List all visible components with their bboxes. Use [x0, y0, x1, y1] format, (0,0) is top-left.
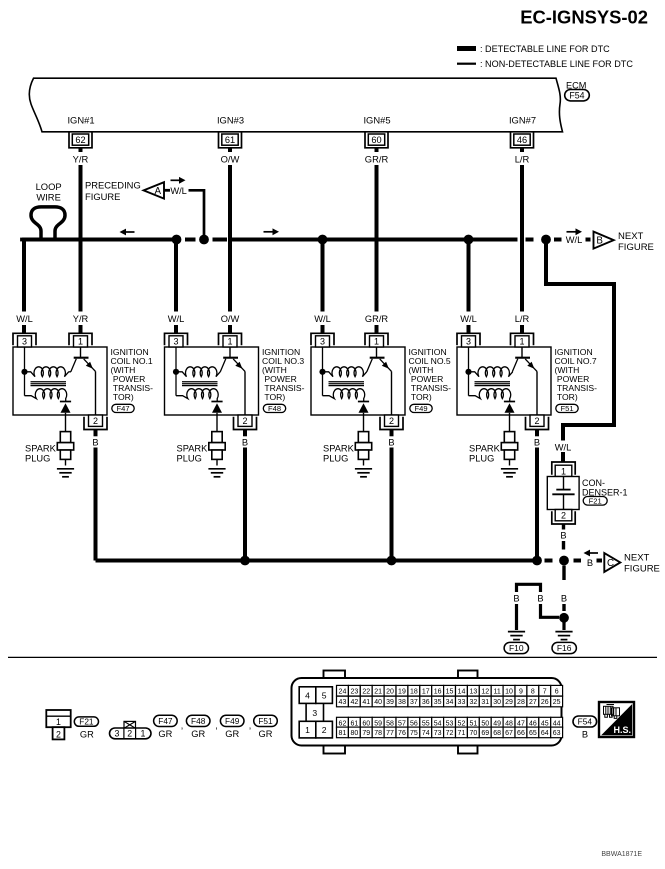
- svg-text:75: 75: [410, 730, 418, 737]
- svg-text:W/L: W/L: [170, 186, 187, 196]
- svg-text:F54: F54: [578, 716, 593, 726]
- svg-text:2: 2: [561, 510, 566, 520]
- svg-text:IGN#3: IGN#3: [217, 115, 244, 126]
- svg-text:1: 1: [227, 337, 232, 347]
- svg-text:F21: F21: [79, 717, 94, 727]
- coil NO.1 box: [13, 347, 107, 415]
- svg-text:FIGURE: FIGURE: [85, 191, 120, 202]
- wire: dash after junction: [574, 559, 582, 563]
- svg-text:F47: F47: [116, 404, 129, 413]
- connector F47: [112, 404, 134, 413]
- svg-text:13: 13: [469, 688, 477, 695]
- svg-text:4: 4: [305, 691, 310, 701]
- transformer T3 primary winding: [176, 367, 220, 377]
- svg-text:TOR): TOR): [111, 392, 134, 402]
- wire primary to transistor base (coil 1): [69, 371, 72, 373]
- diode D3: [211, 402, 222, 413]
- wire B from coil 3 terminal 2 to ground bus: [243, 430, 247, 437]
- wire diode to spark plug (coil 1): [65, 413, 67, 432]
- node junction ground bus (coil 5 B): [387, 556, 397, 566]
- connector F54 (ECM): [565, 90, 590, 101]
- svg-text:72: 72: [446, 730, 454, 737]
- svg-text:B: B: [582, 729, 588, 739]
- svg-text:H.S.: H.S.: [613, 725, 631, 735]
- svg-text:58: 58: [386, 720, 394, 727]
- svg-text:SPARK: SPARK: [177, 444, 209, 454]
- svg-text:10: 10: [505, 688, 513, 695]
- svg-text:F51: F51: [560, 404, 573, 413]
- svg-text:1: 1: [78, 337, 83, 347]
- condenser C1 box: [547, 477, 579, 510]
- svg-text:TOR): TOR): [262, 392, 285, 402]
- arrow left (from next figure): [584, 550, 599, 557]
- wire W/L into condenser: [561, 452, 565, 462]
- svg-text:GR: GR: [259, 729, 273, 739]
- svg-text:42: 42: [350, 699, 358, 706]
- svg-text:F49: F49: [225, 716, 240, 726]
- svg-text:61: 61: [225, 135, 235, 145]
- svg-text:64: 64: [541, 730, 549, 737]
- node junction inside coil 5: [319, 369, 325, 375]
- connector F51 label: [254, 715, 278, 726]
- wire: coil no.3 W/L drop: [174, 240, 178, 312]
- ECM block (torn strip): [29, 78, 562, 132]
- svg-text:W/L: W/L: [555, 442, 572, 452]
- svg-text:60: 60: [371, 135, 381, 145]
- svg-text:1: 1: [305, 725, 310, 735]
- pin cell 4: [299, 687, 316, 704]
- svg-text:26: 26: [541, 699, 549, 706]
- svg-text:TOR): TOR): [555, 392, 578, 402]
- svg-text:F47: F47: [158, 716, 173, 726]
- pin cell 5: [316, 687, 333, 704]
- svg-text:Y/R: Y/R: [73, 314, 89, 324]
- spark plug ground (coil 7): [501, 469, 518, 477]
- svg-text:3: 3: [115, 729, 120, 739]
- svg-text:2: 2: [93, 416, 98, 426]
- svg-text:W/L: W/L: [460, 314, 477, 324]
- svg-text:C: C: [607, 558, 614, 569]
- svg-text:40: 40: [374, 699, 382, 706]
- transformer T5 primary winding: [323, 367, 367, 377]
- svg-text:O/W: O/W: [221, 154, 240, 165]
- wire primary to transistor base (coil 5): [366, 371, 369, 373]
- wire: dashed bus segment: [213, 238, 228, 242]
- ignition coil NO.5 (F49): [311, 314, 451, 561]
- connector F21 (condenser): [583, 497, 607, 506]
- svg-text:B: B: [92, 437, 98, 447]
- svg-text:66: 66: [517, 730, 525, 737]
- svg-text:PLUG: PLUG: [177, 454, 202, 464]
- connector tab bottom left: [324, 743, 346, 754]
- svg-text:IGN#7: IGN#7: [509, 115, 536, 126]
- svg-text:11: 11: [494, 688, 501, 695]
- svg-text:35: 35: [434, 699, 442, 706]
- svg-text:69: 69: [481, 730, 489, 737]
- svg-text:37: 37: [410, 699, 418, 706]
- wire: dash before arrow C: [597, 559, 603, 563]
- svg-text:51: 51: [469, 720, 477, 727]
- svg-text:22: 22: [362, 688, 370, 695]
- svg-text:32: 32: [469, 699, 477, 706]
- ignition coil NO.3 (F48): [165, 314, 305, 561]
- svg-text:41: 41: [362, 699, 370, 706]
- transistor Q5 (power transistor): [367, 347, 392, 372]
- wire emitter to terminal 2 (coil 3): [244, 371, 246, 415]
- coil NO.5 box: [311, 347, 405, 415]
- wire primary to transistor base (coil 3): [219, 371, 222, 373]
- svg-text:31: 31: [481, 699, 489, 706]
- wire Y/R from ECM pin 62 down to ignition coil: [79, 148, 83, 152]
- svg-text:67: 67: [505, 730, 513, 737]
- figure arrow C (next figure): [604, 553, 620, 572]
- svg-text:F21: F21: [589, 497, 602, 506]
- svg-text:SPARK: SPARK: [25, 444, 57, 454]
- wire emitter to terminal 2 (coil 5): [391, 371, 393, 415]
- svg-text:NEXT: NEXT: [618, 231, 644, 242]
- connector F49 label: [220, 715, 244, 726]
- svg-text:70: 70: [469, 730, 477, 737]
- wire primary to transistor base (coil 7): [512, 371, 514, 373]
- connector F10: [504, 642, 528, 653]
- svg-text:30: 30: [493, 699, 501, 706]
- svg-text:21: 21: [374, 688, 382, 695]
- svg-text:FIGURE: FIGURE: [624, 564, 660, 575]
- transistor Q1 (power transistor): [71, 347, 96, 372]
- wire: W/L bus corner down to coil no.1 terminal 3: [22, 240, 26, 312]
- wire L/R from ECM pin 46 down to ignition coil: [520, 148, 524, 152]
- terminal 1 of coil NO.7: [511, 333, 534, 347]
- svg-text:46: 46: [529, 720, 537, 727]
- svg-text:8: 8: [531, 688, 535, 695]
- svg-text:78: 78: [374, 730, 382, 737]
- connector F16: [552, 642, 576, 653]
- svg-text:52: 52: [458, 720, 466, 727]
- dashed wire segment above ground junction: [562, 604, 565, 611]
- terminal 2 of coil NO.5: [380, 415, 403, 430]
- arrow right on bus: [264, 228, 280, 235]
- terminal 1 of coil NO.1: [69, 333, 92, 347]
- svg-text:W/L: W/L: [16, 314, 33, 324]
- wire emitter to terminal 2 (coil 7): [536, 371, 538, 415]
- wire: coil no.5 W/L drop: [321, 240, 325, 312]
- svg-text:F54: F54: [569, 90, 584, 100]
- figure arrow B (next figure): [594, 232, 614, 249]
- svg-text:,: ,: [249, 721, 252, 731]
- ECM terminal 62: [69, 133, 92, 148]
- pin cell 2: [316, 721, 333, 738]
- ECM pin grid: [337, 685, 349, 696]
- connector F54 label (bottom): [573, 716, 597, 727]
- svg-text:43: 43: [339, 699, 347, 706]
- wire emitter to terminal 2 (coil 1): [95, 371, 97, 415]
- svg-text:IGN#5: IGN#5: [363, 115, 390, 126]
- svg-text:18: 18: [410, 688, 418, 695]
- wire: dash before W/L label: [554, 238, 562, 242]
- svg-text:B: B: [561, 594, 567, 604]
- wire W/L from arrow A: [164, 189, 170, 192]
- diode D5: [358, 402, 369, 413]
- transformer T7 core: [475, 382, 511, 386]
- transformer T7 secondary winding: [469, 389, 511, 402]
- svg-text:54: 54: [434, 720, 442, 727]
- terminal 3 of coil NO.1: [13, 333, 36, 347]
- terminal 1 of coil NO.5: [365, 333, 388, 347]
- svg-text:Y/R: Y/R: [73, 154, 89, 165]
- separator rule: [8, 656, 657, 658]
- svg-text:1: 1: [561, 466, 566, 476]
- connector F48: [263, 404, 285, 413]
- svg-text:56: 56: [410, 720, 418, 727]
- ignition coil NO.7 (F51): [457, 314, 597, 561]
- svg-text:80: 80: [350, 730, 358, 737]
- svg-text:6: 6: [555, 688, 559, 695]
- node junction ground bus (coil 7 B): [532, 556, 542, 566]
- transistor Q3 (power transistor): [220, 347, 245, 372]
- spark plug ground (coil 5): [355, 469, 372, 477]
- svg-text:23: 23: [350, 688, 358, 695]
- connector view F21 (2-pin): [46, 710, 70, 739]
- wire: ground bus B (horizontal): [96, 559, 538, 563]
- wire B from coil 1 terminal 2 to ground bus: [94, 430, 98, 437]
- figure arrow A (preceding figure): [144, 182, 164, 198]
- spark plug ground (coil 1): [57, 469, 74, 477]
- svg-text:WIRE: WIRE: [36, 192, 60, 203]
- svg-text:7: 7: [543, 688, 547, 695]
- svg-text:33: 33: [458, 699, 466, 706]
- svg-text:45: 45: [541, 720, 549, 727]
- svg-text:50: 50: [481, 720, 489, 727]
- pin cell 1: [299, 721, 316, 738]
- svg-text:B: B: [537, 594, 543, 604]
- svg-text:2: 2: [534, 416, 539, 426]
- wire: coil no.7 W/L drop: [467, 240, 471, 312]
- svg-text:59: 59: [374, 720, 382, 727]
- svg-text:29: 29: [505, 699, 513, 706]
- terminal 3 of coil NO.7: [457, 333, 480, 347]
- svg-text:GR/R: GR/R: [365, 154, 389, 165]
- arrow over W/L (from preceding figure): [171, 177, 186, 184]
- svg-text:F16: F16: [557, 643, 572, 653]
- arrow over W/L (to next figure): [567, 228, 583, 235]
- wire: dashed bus segment right: [526, 238, 534, 242]
- node junction ground bus (coil 3 B): [240, 556, 250, 566]
- svg-text:48: 48: [505, 720, 513, 727]
- node junction inside coil 1: [21, 369, 27, 375]
- wire: bus solid middle segment: [232, 238, 518, 242]
- svg-text:68: 68: [493, 730, 501, 737]
- coil NO.7 box: [457, 347, 551, 415]
- terminal 2 of coil NO.3: [234, 415, 257, 430]
- svg-text:62: 62: [339, 720, 347, 727]
- transformer T1 core: [31, 382, 67, 386]
- svg-text:49: 49: [493, 720, 501, 727]
- wire stub below condenser: [562, 524, 565, 530]
- svg-text:5: 5: [322, 691, 327, 701]
- svg-text:W/L: W/L: [168, 314, 185, 324]
- svg-text:12: 12: [481, 688, 489, 695]
- svg-text:25: 25: [553, 699, 561, 706]
- wire O/W from ECM pin 61 down to ignition coil: [228, 148, 232, 152]
- H.S. mark: [599, 702, 634, 737]
- svg-text:F49: F49: [414, 404, 427, 413]
- svg-text:B: B: [560, 530, 566, 540]
- svg-text:L/R: L/R: [515, 314, 530, 324]
- svg-text:53: 53: [446, 720, 454, 727]
- svg-text:27: 27: [529, 699, 537, 706]
- transformer T1 primary winding: [25, 367, 69, 377]
- node junction inside coil 3: [173, 369, 179, 375]
- svg-text:44: 44: [553, 720, 561, 727]
- svg-text:GR: GR: [80, 729, 94, 739]
- ECM terminal 60: [365, 133, 388, 148]
- loop wire symbol: [31, 207, 65, 240]
- terminal 1 of condenser: [552, 462, 575, 477]
- svg-text:SPARK: SPARK: [323, 444, 355, 454]
- terminal 1 of coil NO.3: [219, 333, 242, 347]
- svg-text:GR: GR: [158, 729, 172, 739]
- svg-text:2: 2: [242, 416, 247, 426]
- connector F49: [410, 404, 432, 413]
- terminal 2 of coil NO.7: [526, 415, 549, 430]
- svg-text:2: 2: [389, 416, 394, 426]
- wire junction to F16 ground symbol: [562, 621, 565, 630]
- node junction on bus (to coil no.5): [318, 235, 328, 245]
- svg-text:2: 2: [127, 729, 132, 739]
- transistor Q7 (power transistor): [512, 347, 537, 372]
- wire diode to spark plug (coil 3): [216, 413, 218, 432]
- wire diode to spark plug (coil 5): [363, 413, 365, 432]
- spark plug (coil 1): [57, 432, 73, 466]
- svg-text:62: 62: [75, 135, 85, 145]
- svg-text:39: 39: [386, 699, 394, 706]
- svg-text:3: 3: [173, 337, 178, 347]
- wire jumper right lead to junction: [541, 604, 560, 617]
- svg-text:3: 3: [466, 337, 471, 347]
- capacitor symbol: [552, 477, 574, 510]
- svg-text:65: 65: [529, 730, 537, 737]
- wire diode to spark plug (coil 7): [509, 413, 511, 432]
- wire terminal 3 to transformer primary (coil 3): [175, 347, 177, 396]
- svg-text:W/L: W/L: [566, 235, 583, 245]
- pin 3 stems: [305, 703, 307, 721]
- svg-text:B: B: [388, 437, 394, 447]
- svg-text:BBWA1871E: BBWA1871E: [601, 851, 642, 858]
- svg-text:61: 61: [350, 720, 358, 727]
- node junction on bus (to coil no.3): [172, 235, 182, 245]
- svg-text:SPARK: SPARK: [469, 444, 501, 454]
- svg-text:1: 1: [519, 337, 524, 347]
- svg-text:81: 81: [339, 730, 347, 737]
- svg-text:TOR): TOR): [409, 392, 432, 402]
- spark plug (coil 7): [501, 432, 517, 466]
- svg-text:B: B: [534, 437, 540, 447]
- connector tab top left: [324, 671, 346, 680]
- wire from W/L label to bus: [189, 190, 205, 237]
- svg-text:36: 36: [422, 699, 430, 706]
- terminal 3 of coil NO.5: [311, 333, 334, 347]
- svg-text:3: 3: [312, 708, 317, 718]
- ECM terminal 46: [511, 133, 534, 148]
- svg-text:GR/R: GR/R: [365, 314, 389, 324]
- node junction on bus (to coil no.7): [464, 235, 474, 245]
- svg-text:GR: GR: [225, 729, 239, 739]
- svg-text:28: 28: [517, 699, 525, 706]
- svg-text:GR: GR: [191, 729, 205, 739]
- svg-text:F48: F48: [268, 404, 281, 413]
- spark plug (coil 3): [209, 432, 225, 466]
- svg-text:PLUG: PLUG: [25, 454, 50, 464]
- svg-text:1: 1: [374, 337, 379, 347]
- arrow left on bus: [120, 229, 135, 236]
- wire GR/R from ECM pin 60 down to ignition coil: [375, 148, 379, 152]
- wire: dash before arrow B: [586, 238, 591, 242]
- wire B from coil 5 terminal 2 to ground bus: [390, 430, 394, 437]
- svg-text:71: 71: [458, 730, 466, 737]
- connector F21 label: [74, 717, 98, 727]
- svg-text:NEXT: NEXT: [624, 553, 650, 564]
- svg-text:PRECEDING: PRECEDING: [85, 180, 141, 191]
- node junction inside coil 7: [465, 369, 471, 375]
- node junction ground bus (condenser B): [559, 556, 569, 566]
- svg-text:,: ,: [215, 721, 218, 731]
- svg-text:FIGURE: FIGURE: [618, 242, 654, 253]
- svg-text:: DETECTABLE LINE FOR DTC: : DETECTABLE LINE FOR DTC: [480, 44, 610, 54]
- svg-text:CON-: CON-: [582, 478, 605, 488]
- svg-text:PLUG: PLUG: [323, 454, 348, 464]
- svg-text:B: B: [596, 236, 603, 247]
- svg-text:79: 79: [362, 730, 370, 737]
- svg-text:F10: F10: [509, 643, 524, 653]
- svg-text:,: ,: [181, 721, 184, 731]
- transformer T5 core: [329, 382, 365, 386]
- connector body: [292, 678, 562, 746]
- ECM connector view (F54): [292, 671, 563, 754]
- terminal 3 of coil NO.3: [165, 333, 188, 347]
- spark plug ground (coil 3): [208, 469, 225, 477]
- svg-text:3: 3: [320, 337, 325, 347]
- svg-text:: NON-DETECTABLE LINE FOR DTC: : NON-DETECTABLE LINE FOR DTC: [480, 59, 633, 69]
- svg-text:O/W: O/W: [221, 314, 240, 324]
- svg-text:IGN#1: IGN#1: [67, 115, 94, 126]
- diode D1: [60, 402, 71, 413]
- svg-text:46: 46: [517, 135, 527, 145]
- wire F10 ground lead: [515, 604, 518, 630]
- svg-text:PLUG: PLUG: [469, 454, 494, 464]
- node junction on bus (to condenser branch): [541, 235, 551, 245]
- terminal 2 of coil NO.1: [84, 415, 107, 430]
- connector F48 label: [186, 715, 210, 726]
- jumper wire between ground leads (n-shape): [517, 584, 541, 592]
- diode D7: [504, 402, 515, 413]
- svg-text:14: 14: [458, 688, 466, 695]
- ignition coil NO.1 (F47): [13, 314, 153, 561]
- node junction on bus (from preceding figure): [199, 235, 209, 245]
- wire terminal 3 to transformer primary (coil 7): [468, 347, 470, 396]
- svg-text:38: 38: [398, 699, 406, 706]
- connector F51: [556, 404, 578, 413]
- wire terminal 3 to transformer primary (coil 1): [24, 347, 26, 396]
- svg-text:74: 74: [422, 730, 430, 737]
- svg-text:47: 47: [517, 720, 525, 727]
- wire: dashed bus segment between junctions: [185, 238, 196, 242]
- spark plug (coil 5): [355, 432, 371, 466]
- ECM terminal 61: [219, 133, 242, 148]
- svg-text:2: 2: [322, 725, 327, 735]
- node junction at F16 ground: [559, 613, 569, 623]
- svg-text:20: 20: [386, 688, 394, 695]
- connector tab bottom right: [458, 743, 478, 754]
